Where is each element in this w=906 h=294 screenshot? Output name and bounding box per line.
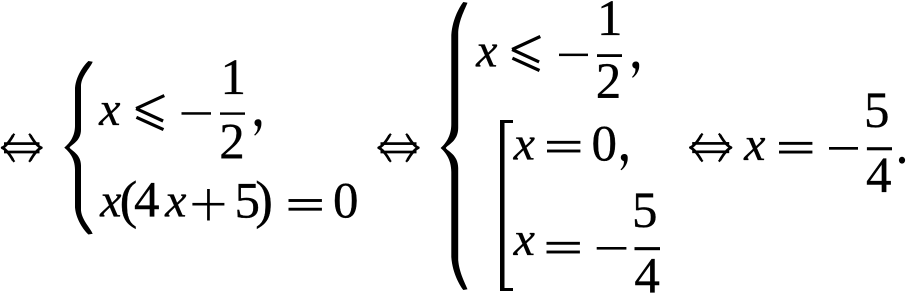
svg-text:0: 0 (333, 173, 359, 229)
svg-text:4: 4 (134, 173, 160, 229)
svg-text:4: 4 (634, 249, 660, 294)
row2a leqslant (512, 37, 540, 71)
row1a leqslant (136, 96, 164, 130)
svg-text:x: x (743, 118, 765, 171)
final minus (829, 147, 858, 150)
final fraction bar (867, 147, 892, 150)
row1a comma (254, 119, 261, 135)
row3b equals (547, 242, 580, 254)
final period (899, 157, 905, 164)
svg-text:): ) (255, 172, 273, 230)
svg-text:1: 1 (221, 50, 247, 106)
second equivalence arrow (379, 134, 419, 162)
svg-text:2: 2 (219, 114, 245, 170)
row1a minus (182, 112, 212, 115)
svg-text:2: 2 (596, 54, 622, 110)
svg-text:1: 1 (597, 0, 623, 47)
row2a fraction bar (597, 54, 622, 57)
row3b minus (597, 247, 627, 250)
svg-text:5: 5 (864, 83, 890, 139)
first equivalence arrow (2, 134, 41, 162)
system brace 1 (64, 61, 92, 235)
row2a minus (559, 54, 588, 57)
svg-text:5: 5 (632, 183, 658, 239)
svg-text:x: x (99, 174, 121, 227)
final equals (779, 142, 812, 154)
system brace 2 (441, 2, 468, 290)
svg-text:x: x (164, 174, 186, 227)
row1b equals (289, 199, 322, 211)
row3a equals (547, 141, 580, 153)
svg-text:x: x (98, 83, 120, 136)
svg-text:0: 0 (592, 117, 618, 173)
row1b plus (192, 189, 224, 221)
row3a comma (621, 154, 628, 170)
svg-text:4: 4 (866, 148, 892, 204)
row3b fraction bar (635, 247, 661, 250)
svg-text:x: x (513, 213, 535, 266)
svg-text:x: x (513, 118, 535, 171)
row2a comma (632, 62, 639, 78)
row1a fraction bar (220, 112, 245, 114)
third equivalence arrow (690, 134, 731, 162)
case bracket (500, 120, 513, 291)
svg-text:x: x (475, 25, 497, 78)
